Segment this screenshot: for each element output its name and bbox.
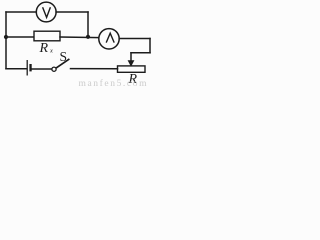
ammeter A glyph [106,33,114,42]
svg-text:manfen5.com: manfen5.com [79,78,149,87]
wire top from left corner to voltmeter [6,11,36,13]
wire bottom left [6,68,27,70]
voltmeter V glyph [43,7,51,17]
svg-text:S: S [60,49,68,64]
wire left vertical [5,12,7,69]
ammeter A1 circle [99,29,119,49]
battery thick plate [29,64,31,71]
wire ammeter to right corner [119,38,150,40]
battery thin plate [26,60,28,76]
wire switch to rheostat [71,68,118,70]
switch S lever [56,59,68,68]
wire voltmeter to top-right corner [56,11,88,13]
switch pivot circle [52,67,56,71]
svg-text:x: x [49,48,53,55]
junction node left [4,35,8,39]
wire main horizontal left segment [6,36,34,38]
rheostat R body [118,66,146,72]
wire slider stem [130,53,132,62]
wire right vertical down [149,39,151,53]
wire battery to switch [32,68,52,70]
junction node right [86,35,90,39]
svg-text:R: R [39,41,49,56]
voltmeter V1 circle [36,2,56,22]
wire top-right corner down to junction [87,12,89,37]
wire resistor to ammeter [60,36,99,39]
rheostat slider arrowhead [128,60,135,67]
wire horizontal to slider [131,52,150,54]
resistor Rx body [34,31,60,41]
